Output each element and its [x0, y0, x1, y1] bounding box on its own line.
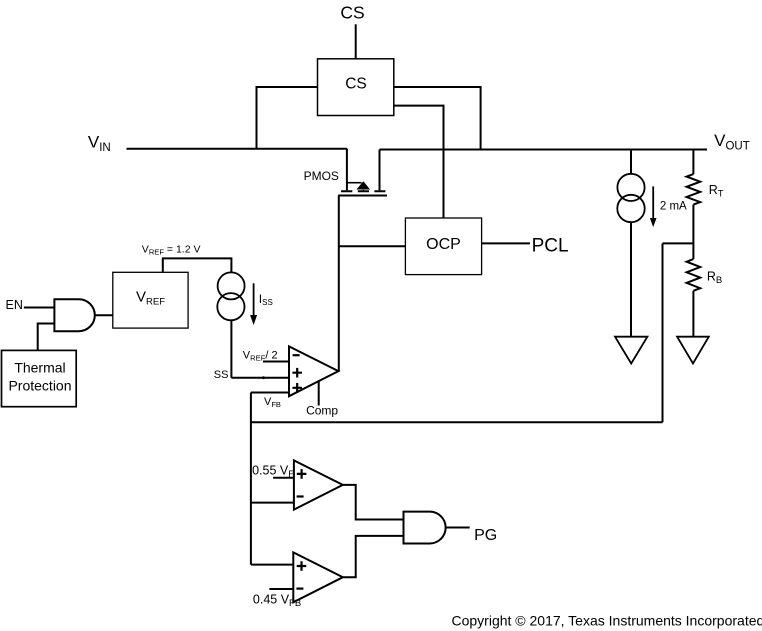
wire comparator1 + input	[273, 477, 294, 479]
op-amp error amplifier	[289, 346, 338, 396]
wire thermal to AND gate	[38, 324, 55, 351]
svg-text:CS: CS	[345, 76, 367, 93]
comparator U3 (0.45 VFB)	[293, 552, 343, 602]
svg-text:PMOS: PMOS	[304, 169, 339, 183]
wire VIN rail	[127, 148, 347, 150]
wire VOUT rail	[380, 149, 708, 151]
wire Comp pin	[318, 381, 320, 405]
plus sign (comp2)	[297, 561, 307, 571]
minus sign (comp2)	[296, 587, 303, 589]
wire SS to amp + input	[231, 377, 289, 379]
arrow ISS direction	[250, 283, 257, 325]
wire comparator1 - input	[251, 502, 294, 504]
minus sign (comp1)	[297, 495, 304, 497]
current source ISS (double circles)	[217, 272, 244, 320]
wire feedback vertical (tap down)	[662, 243, 664, 422]
wire RT to RB	[692, 205, 694, 260]
plus sign (comp1)	[297, 469, 307, 479]
svg-text:Protection: Protection	[8, 378, 71, 394]
wire gate node to OCP left	[339, 245, 406, 247]
svg-text:2 mA: 2 mA	[660, 201, 687, 213]
wire inverting input (VREF/2)	[263, 361, 289, 363]
wire VREF box top to ISS source	[163, 258, 232, 272]
wire PG output	[446, 527, 470, 529]
wire AND gate to VREF box	[95, 314, 113, 316]
wire PMOS gate to error amp output	[338, 196, 340, 372]
wire VFB node vertical	[250, 393, 252, 565]
svg-text:Thermal: Thermal	[14, 360, 65, 376]
block Thermal Protection box	[2, 350, 77, 406]
svg-text:CS: CS	[340, 3, 364, 23]
svg-text:SS: SS	[214, 369, 229, 381]
current source 2 mA (double circles)	[617, 174, 644, 222]
wire comparator2 output to AND	[343, 536, 404, 577]
minus sign (amp)	[293, 354, 300, 356]
ground (below RB)	[677, 337, 709, 364]
resistor RB	[687, 259, 701, 291]
comparator U2 (0.55 VFB)	[294, 460, 343, 509]
plus sign (amp input 2)	[292, 383, 302, 393]
wire OCP to PCL	[482, 242, 530, 244]
wire comparator1 output to AND	[343, 485, 404, 520]
transistor PMOS pass element	[338, 149, 387, 196]
wire comparator2 + input	[251, 564, 293, 566]
junction (SS node)	[262, 376, 265, 379]
wire CS box left to VIN rail	[257, 87, 318, 149]
plus sign (amp input 1)	[292, 368, 302, 378]
wire comparator2 - input	[269, 588, 293, 590]
wire VOUT to RT	[692, 150, 694, 175]
wire VFB to amp + input	[251, 392, 289, 394]
resistor RT	[687, 174, 701, 205]
svg-text:PG: PG	[474, 527, 497, 544]
block CS box	[318, 59, 394, 116]
wire CS box to OCP top	[394, 106, 444, 218]
wire current source to ground	[630, 222, 632, 337]
and-gate PG	[404, 512, 446, 544]
block VREF box	[113, 272, 188, 328]
svg-text:PCL: PCL	[532, 236, 569, 257]
wire feedback tap	[663, 242, 694, 244]
wire EN to AND gate	[24, 307, 55, 309]
wire ISS to SS node	[230, 320, 232, 378]
wire CS pin stub	[355, 24, 357, 59]
svg-text:Copyright © 2017, Texas Instru: Copyright © 2017, Texas Instruments Inco…	[452, 613, 762, 629]
wire feedback horizontal to VFB node	[251, 421, 663, 423]
arrow 2 mA direction	[650, 186, 657, 227]
svg-text:OCP: OCP	[426, 236, 461, 253]
and-gate U1 (enable)	[54, 299, 94, 331]
wire VOUT to 2mA current source	[630, 150, 632, 174]
wire RB to ground	[692, 291, 694, 337]
svg-text:Comp: Comp	[306, 404, 338, 418]
svg-text:EN: EN	[6, 298, 23, 312]
ground (below current source)	[615, 337, 647, 364]
block OCP box	[405, 218, 481, 275]
label Thermal Protection	[8, 360, 71, 394]
wire CS box right to VOUT rail	[394, 87, 481, 150]
